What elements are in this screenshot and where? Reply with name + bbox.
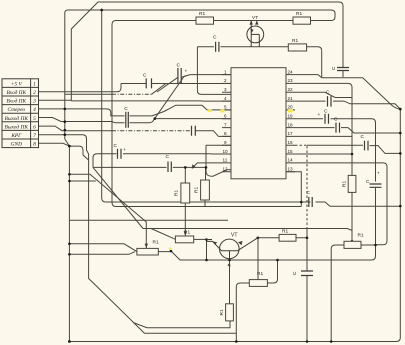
capacitor C9 pin19 row electrolytic [325, 114, 329, 124]
wire row 260 [171, 245, 376, 260]
wire pin14 net electrolytic [295, 163, 387, 245]
wire pin18 row cap [295, 128, 400, 133]
wire IC pin11 link [192, 163, 222, 168]
transistor VT2 [207, 238, 258, 259]
capacitor C7 top right vertical [337, 68, 349, 71]
IC U1 left pin stubs [222, 75, 231, 172]
wire pin21 row cap [295, 101, 400, 109]
wire row 167.4 [93, 166, 206, 168]
wire bottom ground line [69, 109, 400, 341]
svg-text:+5 V: +5 V [11, 81, 23, 87]
svg-text:C: C [166, 154, 170, 160]
wire VT2 emitter down [229, 259, 231, 304]
wire row 243 converge [69, 244, 136, 252]
resistor R1h [344, 241, 361, 248]
svg-text:R1: R1 [153, 240, 159, 246]
svg-text:1: 1 [224, 69, 227, 74]
svg-text:C: C [213, 35, 217, 41]
wire vertical x96 from row164 [93, 154, 112, 168]
svg-text:5: 5 [33, 116, 36, 122]
svg-text:C: C [334, 117, 338, 123]
svg-text:КРГ: КРГ [10, 133, 22, 139]
svg-text:R1: R1 [174, 190, 180, 196]
wire dashed vertical [306, 146, 308, 228]
svg-text:C: C [114, 143, 118, 149]
resistor R1b top right [293, 17, 311, 24]
wire R1e row [69, 252, 171, 255]
svg-text:24: 24 [288, 69, 294, 74]
svg-text:+: + [377, 172, 380, 177]
wire IC pin9 row [206, 144, 231, 146]
wire R1f row to VT2 base [194, 238, 207, 240]
svg-text:4: 4 [224, 96, 227, 101]
wire vertical 307 solid [306, 228, 308, 238]
svg-text:C: C [307, 190, 311, 196]
wire C2 left lead diagonal [157, 77, 178, 92]
svg-text:17: 17 [288, 131, 294, 136]
svg-text:R1: R1 [219, 309, 225, 315]
wire IC pin13 drop [286, 172, 301, 207]
svg-text:8: 8 [33, 142, 36, 148]
svg-text:4: 4 [33, 107, 36, 113]
wire resistor bottoms row B [118, 200, 301, 236]
wire row 220 [69, 219, 228, 221]
wire resistor R2a top stub [184, 167, 186, 183]
wire vertical from top line junction to middle bus A [102, 10, 401, 206]
svg-text:20: 20 [288, 105, 294, 110]
connector X1 table [2, 79, 39, 148]
IC U1 body [231, 68, 286, 179]
wire pin16 row cap [307, 145, 400, 153]
wire row 101.5 to IC pin4 [71, 100, 231, 102]
svg-text:2: 2 [33, 90, 36, 96]
svg-text:11: 11 [223, 158, 228, 163]
svg-text:Стерео: Стерео [7, 107, 25, 113]
wire left vertical bus lower [68, 146, 70, 341]
svg-text:C: C [326, 90, 330, 96]
transistor VT1 [247, 21, 264, 47]
svg-text:6: 6 [33, 124, 36, 130]
capacitor C4 pin6 row [126, 112, 129, 128]
svg-text:R1: R1 [292, 38, 298, 44]
svg-text:12: 12 [223, 167, 229, 172]
wire C3 vertical to IC pin3 [197, 47, 231, 95]
svg-text:Выход ПК: Выход ПК [5, 115, 29, 122]
wire long diagonal bottom left [92, 282, 236, 333]
yellow highlight pin20 [288, 109, 293, 112]
wire right edge diagonal D3 [363, 78, 400, 109]
wire cap C17 to IC pin8 [188, 131, 231, 137]
wire row 181 [69, 180, 95, 182]
svg-text:C: C [124, 106, 128, 112]
svg-text:18: 18 [288, 122, 294, 127]
resistor R2b vertical [201, 180, 210, 200]
capacitor C1 pin2 row [146, 78, 151, 88]
wire vertical VT2 collector to R1g top [257, 238, 259, 280]
svg-text:+: + [123, 148, 126, 153]
wire cap row 153.8 to IC pin10 [112, 153, 231, 155]
svg-text:R1: R1 [342, 181, 348, 187]
yellow fleck [169, 248, 172, 251]
resistor R4 vertical bottom [226, 304, 234, 321]
arrow into R1e top [145, 164, 196, 248]
wire pin16 dashed [295, 144, 307, 146]
wire cap x310 vertical [306, 238, 308, 342]
svg-text:7: 7 [224, 122, 227, 127]
wire IC pin1 row [184, 75, 231, 77]
svg-text:9: 9 [224, 140, 227, 145]
svg-text:C: C [331, 66, 337, 70]
svg-text:C: C [366, 179, 370, 185]
wire R1g left lead down [236, 283, 249, 342]
svg-text:3: 3 [224, 87, 227, 92]
svg-text:10: 10 [223, 149, 229, 154]
resistor R3 vertical right [348, 175, 356, 192]
resistor R2a vertical [181, 183, 190, 203]
wire bus merge diagonal [65, 139, 70, 146]
capacitor C2 pin1 row electrolytic [178, 68, 181, 84]
svg-text:13: 13 [288, 167, 294, 172]
svg-text:14: 14 [288, 158, 294, 163]
svg-text:Выход ПК: Выход ПК [5, 123, 29, 130]
svg-text:23: 23 [288, 78, 294, 83]
wire vertical from C3 row to pin24 row [321, 51, 323, 77]
wire pin23 drop to R bottom net [295, 83, 352, 241]
wire GND row continuation corner down [69, 146, 88, 160]
wire VT2 base drop [206, 240, 208, 261]
svg-text:6: 6 [224, 114, 227, 119]
capacitor C10 pin18 row [336, 123, 340, 133]
svg-text:R1: R1 [358, 233, 364, 239]
wire vertical x88 from pin2 row [89, 154, 93, 282]
wire R1h left lead down [331, 245, 344, 342]
resistor R1f [175, 236, 193, 243]
wire diagonal D1 [93, 167, 143, 228]
svg-text:R1: R1 [193, 187, 199, 193]
svg-text:+: + [318, 113, 321, 118]
wire connector pin2 corner up to C1 [39, 84, 122, 92]
wire R1f left diagonal [151, 229, 175, 240]
svg-text:1: 1 [33, 81, 36, 87]
svg-text:2: 2 [224, 78, 227, 83]
wire resistor bottom return line [133, 321, 230, 328]
capacitor C11 pin16 row [365, 141, 369, 151]
transistor VT2 arrows [213, 241, 243, 267]
svg-text:Вход ПК: Вход ПК [6, 98, 26, 105]
svg-text:VT: VT [252, 15, 258, 21]
wire connector pin6 row dashed [39, 126, 113, 131]
wire R1h right lead [361, 244, 376, 246]
wire connector pin8 GND row [39, 143, 70, 146]
svg-text:+: + [185, 70, 188, 75]
svg-text:16: 16 [288, 140, 294, 145]
svg-text:Вход ПК: Вход ПК [6, 89, 26, 96]
svg-text:C: C [292, 271, 298, 275]
svg-text:C: C [324, 109, 328, 115]
wire C2 right lead to pin1 row [181, 76, 186, 78]
wire diagonal dashrow to pin2 row [152, 83, 167, 94]
svg-text:3: 3 [32, 99, 36, 105]
capacitor C8 pin21 row [328, 96, 332, 107]
wire IC pin6 row [155, 118, 231, 120]
yellow highlight pin5 [208, 110, 213, 113]
wire row 228.5 [143, 229, 352, 231]
svg-text:7: 7 [33, 133, 36, 139]
svg-text:R1: R1 [282, 229, 288, 235]
capacitor C13 pin13 row [309, 197, 312, 207]
wire R1g right lead [267, 260, 277, 283]
svg-text:5: 5 [224, 105, 227, 110]
capacitor C3 top [216, 42, 219, 52]
resistor labels [153, 11, 364, 316]
wire dash-dot row 94.3 [65, 93, 112, 95]
capacitor C14 bottom right vertical [301, 271, 313, 276]
wire C3 row [197, 47, 321, 51]
wire link to IC pin12 [206, 167, 231, 176]
wire connector pin5 row to cap C4 [39, 118, 153, 123]
wire connector pin4 row to IC pin5 [39, 105, 232, 116]
connector labels [5, 81, 37, 147]
wire connector pin7 row corner down [39, 135, 89, 154]
svg-text:R1: R1 [296, 11, 302, 17]
IC pin numbers left [223, 69, 294, 171]
IC U1 right pin stubs [286, 75, 295, 172]
svg-text:C: C [361, 134, 365, 140]
svg-text:VT: VT [231, 233, 237, 239]
svg-text:15: 15 [288, 149, 294, 154]
capacitor C6 row167 [168, 162, 171, 173]
wire pin24 row [295, 75, 363, 78]
wire left vertical bus upper [65, 10, 335, 207]
wire pin15 row [295, 153, 352, 155]
resistor R1d [279, 234, 296, 241]
svg-text:8: 8 [224, 131, 227, 136]
transistor VT1 arrows [250, 20, 259, 33]
resistor R1a top [196, 17, 214, 24]
capacitor C12 pin14 net electrolytic vertical [370, 184, 382, 187]
svg-text:GND: GND [11, 142, 22, 148]
wire pin17 row [295, 135, 352, 137]
wire diagonal Da from C4 row to pin1 row [153, 77, 185, 122]
capacitor labels [114, 35, 381, 276]
resistor R1e [137, 248, 158, 255]
capacitor C5 row153 electrolytic [118, 149, 122, 159]
svg-text:21: 21 [288, 96, 294, 101]
wire VT2 collector net [258, 237, 307, 239]
wire pin22 row [295, 92, 352, 97]
wire IC pin2 row with cap C1 [121, 83, 231, 85]
svg-text:C: C [177, 63, 181, 69]
wire top net T1 diagonal and top line [71, 2, 343, 101]
svg-text:19: 19 [288, 114, 294, 119]
svg-text:C: C [143, 73, 147, 79]
wire pin19 row cap [295, 119, 376, 245]
svg-text:R1: R1 [199, 11, 205, 17]
resistor R1c [288, 44, 306, 51]
svg-text:22: 22 [288, 87, 294, 92]
wire vertical pin9 to resistor R2b [205, 145, 208, 180]
wire diagonal D2 [69, 174, 146, 248]
wire connector pin3 stub [39, 99, 72, 101]
capacitor C17 pin8 row [192, 126, 196, 136]
svg-text:R1: R1 [257, 271, 263, 277]
resistor R1g [249, 280, 267, 287]
